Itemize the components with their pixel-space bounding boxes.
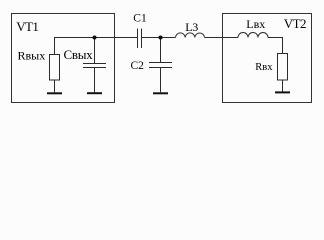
svg-text:Rвых: Rвых [18, 49, 46, 63]
resistor Rvyh lead + wire to C1 [55, 38, 138, 55]
svg-text:C1: C1 [133, 13, 147, 25]
inductor L3 [176, 33, 205, 38]
svg-text:C2: C2 [131, 60, 145, 72]
capacitor C2 bottom lead [160, 68, 162, 93]
resistor Rvh bottom lead [282, 80, 284, 92]
capacitor Cvyh plates [83, 64, 106, 68]
svg-text:Свых: Свых [64, 47, 94, 62]
transistor stage box VT1 [12, 14, 115, 103]
svg-text:Lвх: Lвх [246, 17, 265, 31]
ground under Rvh [275, 91, 290, 93]
capacitor Cvyh top lead [94, 38, 96, 64]
capacitor C1 plates [138, 29, 142, 49]
svg-text:Rвх: Rвх [255, 62, 273, 73]
node junction dot at C2 [159, 36, 163, 40]
resistor Rvyh bottom lead [54, 80, 56, 92]
resistor Rvh body [278, 54, 288, 81]
capacitor Cvyh bottom lead [94, 68, 96, 93]
svg-text:VT1: VT1 [16, 19, 38, 34]
wire L3 to Lvh [205, 37, 239, 39]
resistor Rvyh body [50, 55, 60, 81]
svg-text:L3: L3 [185, 20, 198, 34]
capacitor C2 plates [149, 63, 172, 68]
wire C1 to L3 [142, 37, 176, 39]
ground under C2 [153, 92, 168, 94]
transistor stage box VT2 [223, 14, 312, 103]
wire Lvh to Rvh [268, 38, 283, 54]
svg-text:VT2: VT2 [284, 16, 306, 31]
capacitor C2 top lead [160, 38, 162, 63]
node junction dot at Cvyh [93, 36, 97, 40]
ground under Rvyh [47, 92, 62, 94]
inductor Lvh [238, 33, 268, 38]
ground under Cvyh [87, 92, 102, 94]
